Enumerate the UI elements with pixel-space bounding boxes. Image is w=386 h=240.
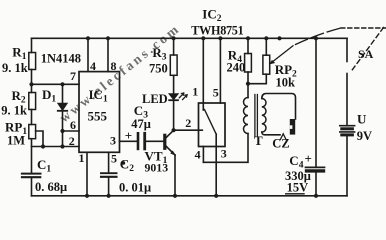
op-amp U2 IC2 TWH8751 box bbox=[199, 103, 226, 147]
svg-text:0. 01μ: 0. 01μ bbox=[119, 181, 151, 195]
svg-text:9V: 9V bbox=[357, 129, 372, 143]
wire C1 to ground rail bbox=[31, 178, 33, 196]
wire secondary bottom lead bbox=[262, 132, 280, 135]
node pin4 on rail bbox=[86, 36, 90, 40]
wire secondary top to jack bbox=[262, 94, 296, 120]
wire pin1 stub to ground bbox=[86, 152, 88, 196]
svg-text:47μ: 47μ bbox=[131, 117, 151, 131]
node RP2 on rail bbox=[264, 36, 268, 40]
transistor Q1 VT1 9013 bbox=[165, 130, 175, 196]
node on rail near RP2 bbox=[277, 36, 281, 40]
wire SA to battery bbox=[346, 74, 348, 126]
wire IC2 pin5 stub bbox=[219, 38, 221, 103]
wire pin8 stub bbox=[107, 38, 109, 71]
RP2 wiper arrow with coupling shaft bbox=[270, 46, 293, 64]
wire R2 to RP1 bbox=[31, 110, 33, 125]
switch blade inside IC2 bbox=[205, 110, 217, 135]
transformer T core bbox=[254, 95, 256, 137]
capacitor C2 plates bbox=[101, 172, 117, 174]
svg-text:9013: 9013 bbox=[145, 161, 169, 175]
diode D1 bbox=[58, 84, 67, 146]
wire rail to R4 bbox=[247, 38, 249, 53]
LED D2 bbox=[169, 93, 187, 100]
svg-text:10k: 10k bbox=[276, 76, 296, 90]
svg-text:LED: LED bbox=[142, 92, 168, 106]
wire RP1 bottom to pin2 line and C1 bbox=[31, 139, 33, 174]
node D1 cathode junction bbox=[60, 144, 64, 148]
svg-text:+: + bbox=[305, 151, 312, 166]
svg-text:1M: 1M bbox=[7, 133, 25, 147]
resistor R1 bbox=[29, 53, 36, 70]
node R4-RP2 junction bbox=[246, 82, 250, 86]
svg-text:7: 7 bbox=[70, 69, 76, 83]
wire R1 to R2 bbox=[31, 70, 33, 93]
wire left rail top segment bbox=[31, 38, 33, 52]
wire battery to ground rail bbox=[346, 136, 348, 196]
svg-text:8: 8 bbox=[111, 59, 117, 73]
svg-text:5: 5 bbox=[213, 86, 219, 100]
wire pin3 of IC1 bbox=[120, 140, 137, 142]
wire IC2 pin3 to ground bbox=[215, 134, 217, 196]
wire pin4 to transformer primary bottom bbox=[203, 134, 248, 163]
svg-text:5: 5 bbox=[111, 151, 117, 165]
svg-text:9. 1k: 9. 1k bbox=[1, 104, 27, 118]
wire bottom ground rail bbox=[32, 195, 348, 197]
resistor R4 bbox=[245, 54, 252, 73]
wire pin5 stub bbox=[108, 152, 110, 173]
dashed mechanical coupling line RP2 to SA bbox=[296, 28, 344, 45]
wire RP1 wiper tap bbox=[36, 131, 43, 147]
switch SA dashed lines bbox=[341, 27, 386, 29]
battery U bbox=[340, 126, 355, 135]
svg-text:0. 68μ: 0. 68μ bbox=[35, 180, 67, 194]
svg-text:3: 3 bbox=[221, 147, 227, 161]
node IC2 pin3 on ground rail bbox=[214, 194, 218, 198]
wire R4 junction to RP2 bottom bbox=[248, 74, 266, 84]
resistor R2 bbox=[29, 93, 36, 110]
wire rail to C4 bbox=[315, 38, 317, 167]
svg-text:3: 3 bbox=[110, 133, 116, 147]
node pin8 on rail bbox=[106, 36, 110, 40]
wire pin2 of IC2 bbox=[174, 129, 203, 131]
svg-text:TWH8751: TWH8751 bbox=[191, 23, 243, 37]
wire C3 to VT1 base bbox=[146, 140, 164, 142]
svg-text:+: + bbox=[125, 128, 132, 143]
svg-text:4: 4 bbox=[195, 148, 201, 162]
transformer T secondary winding bbox=[262, 99, 266, 133]
wire pin7 of IC1 bbox=[32, 83, 80, 85]
wire IC2 pin4 stub bbox=[202, 147, 204, 163]
wire IC2 pin1 stub bbox=[202, 38, 204, 110]
node D1 pin6 junction bbox=[60, 129, 64, 133]
wire pin2 of IC1 bbox=[32, 146, 80, 148]
svg-text:6: 6 bbox=[70, 118, 76, 132]
node collector junction bbox=[172, 128, 176, 132]
svg-text:2: 2 bbox=[69, 134, 75, 148]
node R4 on rail bbox=[246, 36, 250, 40]
wire R3 to LED bbox=[173, 75, 175, 93]
svg-text:4: 4 bbox=[90, 59, 96, 73]
potentiometer RP2 body bbox=[263, 55, 270, 74]
wire rail to R3 bbox=[173, 38, 175, 55]
svg-text:15V: 15V bbox=[287, 181, 309, 195]
stray ink dot bbox=[122, 161, 126, 165]
wire RP2 top to rail bbox=[265, 38, 267, 55]
capacitor C3 plates bbox=[137, 133, 140, 149]
jack CZ plug symbol bbox=[280, 119, 295, 139]
op-amp U1 timer IC1 555 box bbox=[79, 72, 120, 153]
node C4 on rail bbox=[314, 36, 318, 40]
node R3 on rail bbox=[172, 36, 176, 40]
node D1 anode junction bbox=[60, 82, 64, 86]
wire C4 to ground rail bbox=[315, 173, 317, 196]
node VT1 emitter on ground rail bbox=[173, 194, 177, 198]
wire rail corner to switch SA bbox=[346, 38, 348, 61]
capacitor C1 plates bbox=[22, 173, 41, 175]
svg-text:1: 1 bbox=[192, 85, 198, 99]
wire top supply rail bbox=[32, 37, 348, 39]
svg-text:1N4148: 1N4148 bbox=[41, 51, 81, 65]
wire R4 bottom bbox=[247, 72, 249, 98]
svg-text:2: 2 bbox=[185, 116, 191, 130]
svg-text:9. 1k: 9. 1k bbox=[2, 61, 28, 75]
wire LED to collector node bbox=[173, 100, 175, 130]
resistor R3 bbox=[170, 55, 177, 75]
svg-text:CZ: CZ bbox=[272, 136, 289, 150]
svg-text:750: 750 bbox=[149, 61, 168, 75]
svg-text:T: T bbox=[254, 133, 263, 148]
node IC2 pin1 on rail bbox=[201, 36, 205, 40]
wire C2 to ground bbox=[108, 177, 110, 196]
node R1-R2 junction bbox=[29, 82, 33, 86]
node IC2 pin5 on rail bbox=[218, 36, 222, 40]
wire pin6 of IC1 bbox=[63, 130, 80, 132]
node pin1 on ground rail bbox=[85, 194, 89, 198]
svg-text:U: U bbox=[357, 112, 367, 127]
potentiometer RP1 body bbox=[29, 125, 36, 139]
svg-text:555: 555 bbox=[88, 108, 108, 123]
svg-text:1: 1 bbox=[79, 151, 85, 165]
svg-text:SA: SA bbox=[358, 47, 374, 61]
node wiper junction bbox=[41, 144, 45, 148]
capacitor C4 plates bbox=[306, 166, 325, 168]
wire pin4 stub bbox=[87, 38, 89, 71]
node C2 on ground rail bbox=[107, 194, 111, 198]
watermark www.elecfans.com diagonal bbox=[57, 20, 184, 125]
node C4 on ground rail bbox=[314, 194, 318, 198]
transformer T primary winding bbox=[244, 98, 249, 134]
svg-text:240: 240 bbox=[227, 61, 246, 75]
